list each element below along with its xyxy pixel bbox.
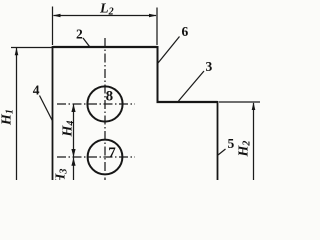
L2 right extension line <box>156 8 158 46</box>
svg-text:2: 2 <box>76 26 83 41</box>
svg-text:5: 5 <box>228 136 235 151</box>
leader for 6 <box>158 37 180 64</box>
leader for 2 <box>83 38 90 47</box>
H3 top arrowhead <box>71 158 75 166</box>
part outline: right edge <box>217 101 219 180</box>
L2 left extension line <box>52 7 54 46</box>
hole circle 8 <box>87 86 122 121</box>
leader for 4 <box>40 96 53 122</box>
circle 8 horizontal centerline <box>57 103 135 105</box>
leader for 3 <box>179 71 205 101</box>
H1 top arrowhead <box>15 48 19 56</box>
H1 extension line <box>11 47 52 49</box>
label H3 <box>54 169 70 186</box>
part outline: step horizontal edge <box>157 101 218 103</box>
part outline: step vertical edge <box>157 46 159 102</box>
vertical centerline <box>104 38 106 180</box>
H2 dimension line <box>253 103 255 180</box>
H3 dimension line <box>73 157 75 180</box>
svg-text:3: 3 <box>206 59 213 74</box>
L2 left arrowhead <box>53 14 61 18</box>
leader for 5 <box>218 149 226 155</box>
H2 top arrowhead <box>252 102 256 110</box>
H4 bottom arrowhead <box>71 149 75 157</box>
svg-text:7: 7 <box>108 145 116 161</box>
circle 7 horizontal centerline <box>57 156 135 158</box>
H4 dimension line <box>73 104 75 157</box>
svg-text:4: 4 <box>33 83 40 98</box>
hole circle 7 <box>88 140 123 175</box>
H4 top arrowhead <box>71 104 75 112</box>
label H4 <box>61 121 77 138</box>
svg-text:8: 8 <box>106 89 114 105</box>
L2 right arrowhead <box>149 14 157 18</box>
H1 dimension line <box>16 48 18 180</box>
part outline: top edge <box>53 46 158 48</box>
L2 dimension line <box>54 15 157 17</box>
svg-text:6: 6 <box>182 24 189 39</box>
label H2 <box>237 141 253 158</box>
part outline: left edge <box>52 46 54 180</box>
label H1 <box>0 109 16 126</box>
H2 extension line <box>219 101 260 103</box>
